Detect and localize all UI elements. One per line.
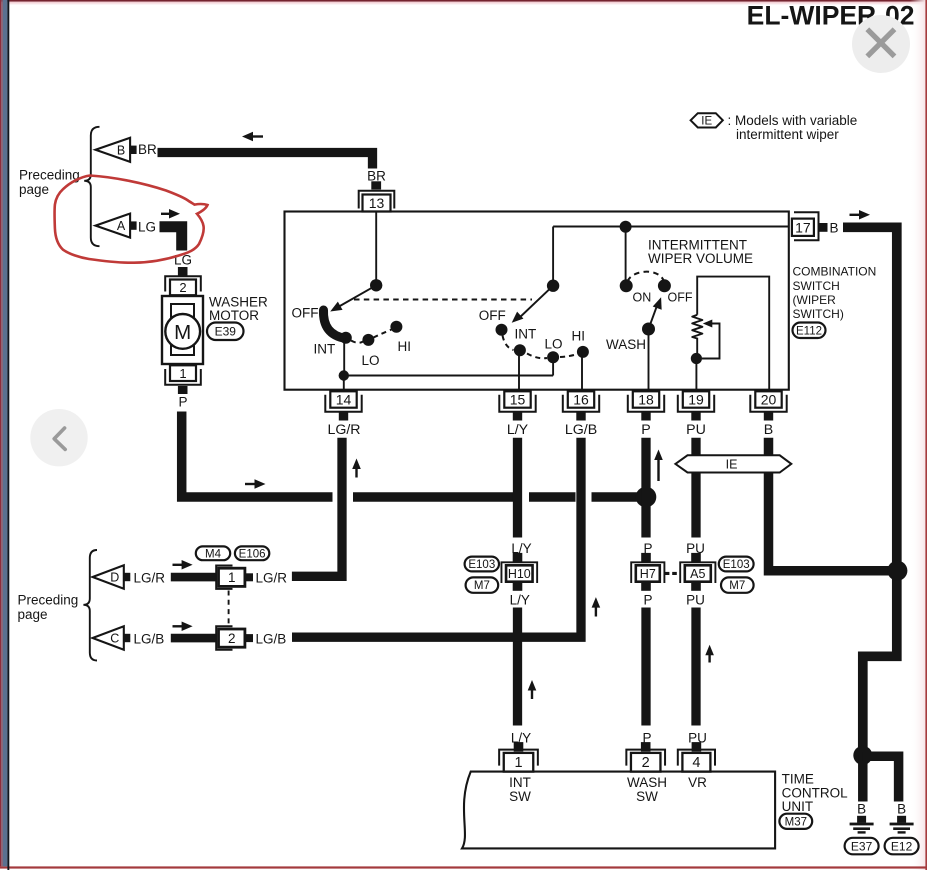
svg-text:HI: HI xyxy=(572,329,586,344)
svg-text:HI: HI xyxy=(398,339,412,354)
svg-text:B: B xyxy=(830,220,839,235)
svg-text:INT: INT xyxy=(509,775,531,790)
svg-text:Preceding: Preceding xyxy=(19,168,80,183)
svg-text:WIPER VOLUME: WIPER VOLUME xyxy=(648,251,753,266)
svg-text:IE: IE xyxy=(726,458,738,472)
svg-text:2: 2 xyxy=(228,631,236,646)
svg-text:: Models with variable: : Models with variable xyxy=(728,113,858,128)
svg-text:B: B xyxy=(897,802,906,817)
svg-text:LO: LO xyxy=(545,337,563,352)
svg-text:(WIPER: (WIPER xyxy=(793,293,837,307)
svg-text:INT: INT xyxy=(515,327,537,342)
svg-text:TIME: TIME xyxy=(782,772,814,787)
svg-text:E103: E103 xyxy=(468,559,495,571)
svg-text:1: 1 xyxy=(179,366,186,381)
svg-text:PU: PU xyxy=(686,422,706,438)
svg-text:C: C xyxy=(110,632,119,646)
svg-text:A5: A5 xyxy=(690,567,705,581)
svg-text:P: P xyxy=(643,593,652,608)
svg-text:M: M xyxy=(174,321,191,344)
svg-text:LG/R: LG/R xyxy=(327,422,360,438)
svg-text:14: 14 xyxy=(336,392,352,408)
svg-text:LG/R: LG/R xyxy=(134,571,166,586)
svg-text:B: B xyxy=(857,802,866,817)
svg-text:WASH: WASH xyxy=(627,775,667,790)
svg-text:BR: BR xyxy=(367,169,386,184)
svg-text:M7: M7 xyxy=(729,580,745,592)
svg-text:VR: VR xyxy=(688,775,707,790)
svg-text:LG/B: LG/B xyxy=(565,422,597,438)
svg-text:D: D xyxy=(110,571,119,585)
svg-text:INT: INT xyxy=(314,342,336,357)
svg-text:SWITCH: SWITCH xyxy=(793,279,840,293)
svg-text:SWITCH): SWITCH) xyxy=(793,307,844,321)
svg-text:page: page xyxy=(18,607,48,622)
svg-text:1: 1 xyxy=(514,755,522,771)
svg-text:P: P xyxy=(641,422,650,438)
svg-text:MOTOR: MOTOR xyxy=(209,308,259,323)
svg-text:OFF: OFF xyxy=(292,306,319,321)
svg-text:15: 15 xyxy=(510,392,526,408)
svg-text:UNIT: UNIT xyxy=(782,799,814,814)
svg-text:COMBINATION: COMBINATION xyxy=(793,265,877,279)
svg-text:M4: M4 xyxy=(205,548,222,560)
svg-text:1: 1 xyxy=(228,570,236,585)
svg-text:H7: H7 xyxy=(640,567,656,581)
svg-text:LG/B: LG/B xyxy=(134,632,165,647)
svg-text:intermittent wiper: intermittent wiper xyxy=(736,127,839,142)
svg-text:page: page xyxy=(19,182,49,197)
svg-text:17: 17 xyxy=(795,220,811,236)
svg-text:M37: M37 xyxy=(785,816,807,828)
svg-text:ON: ON xyxy=(633,291,652,305)
svg-text:OFF: OFF xyxy=(479,308,506,323)
svg-text:E12: E12 xyxy=(891,839,913,853)
svg-text:18: 18 xyxy=(638,392,654,408)
svg-text:H10: H10 xyxy=(508,567,531,581)
svg-text:L/Y: L/Y xyxy=(510,593,530,608)
svg-text:20: 20 xyxy=(761,392,777,408)
svg-text:L/Y: L/Y xyxy=(507,422,529,438)
svg-text:LG: LG xyxy=(138,220,156,235)
svg-text:P: P xyxy=(178,395,187,410)
svg-text:2: 2 xyxy=(642,755,650,771)
svg-text:16: 16 xyxy=(573,392,589,408)
svg-text:2: 2 xyxy=(179,280,186,295)
svg-text:OFF: OFF xyxy=(668,291,693,305)
svg-text:M7: M7 xyxy=(474,580,490,592)
svg-text:CONTROL: CONTROL xyxy=(782,785,848,800)
svg-text:E106: E106 xyxy=(239,548,266,560)
svg-text:PU: PU xyxy=(686,593,705,608)
svg-text:BR: BR xyxy=(138,142,157,157)
svg-text:LG/B: LG/B xyxy=(256,632,287,647)
svg-text:LG/R: LG/R xyxy=(256,571,288,586)
svg-text:LO: LO xyxy=(362,353,380,368)
svg-text:A: A xyxy=(117,219,126,233)
svg-text:E39: E39 xyxy=(215,325,237,339)
svg-text:4: 4 xyxy=(692,755,700,771)
svg-text:SW: SW xyxy=(509,789,531,804)
svg-text:PU: PU xyxy=(686,541,705,556)
svg-text:B: B xyxy=(764,422,773,438)
svg-text:IE: IE xyxy=(701,116,712,128)
svg-text:E103: E103 xyxy=(723,559,750,571)
svg-text:B: B xyxy=(117,143,125,157)
svg-text:WASH: WASH xyxy=(606,337,646,352)
svg-text:E112: E112 xyxy=(796,325,822,337)
svg-text:SW: SW xyxy=(636,789,658,804)
svg-text:E37: E37 xyxy=(851,839,873,853)
svg-text:13: 13 xyxy=(369,195,385,211)
svg-text:19: 19 xyxy=(688,392,704,408)
svg-text:Preceding: Preceding xyxy=(18,592,79,607)
